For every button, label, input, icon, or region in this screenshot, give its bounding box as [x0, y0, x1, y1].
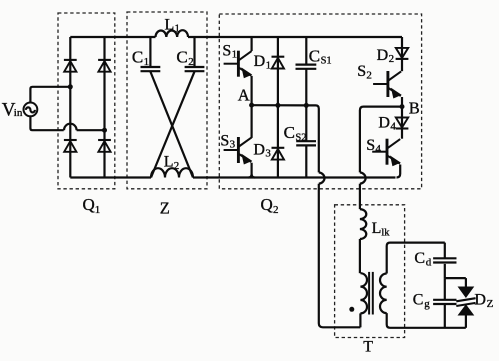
svg-text:D: D [253, 142, 265, 159]
svg-text:B: B [409, 98, 420, 117]
svg-text:S: S [222, 42, 231, 59]
svg-text:C: C [284, 123, 295, 142]
svg-text:g: g [424, 298, 430, 310]
svg-text:C: C [309, 47, 320, 66]
svg-text:2: 2 [188, 56, 194, 68]
svg-text:2: 2 [389, 53, 395, 65]
svg-text:D: D [254, 53, 266, 70]
svg-text:4: 4 [390, 121, 396, 133]
svg-text:S: S [357, 63, 366, 80]
svg-text:Z: Z [487, 298, 494, 310]
svg-text:d: d [426, 256, 432, 268]
svg-text:D: D [378, 114, 390, 131]
svg-text:1: 1 [95, 204, 101, 216]
svg-text:S1: S1 [321, 55, 332, 66]
svg-text:D: D [377, 47, 389, 64]
svg-text:L: L [164, 154, 174, 171]
svg-text:A: A [238, 85, 250, 104]
svg-text:C: C [414, 250, 425, 267]
svg-text:L: L [165, 16, 175, 33]
svg-text:S: S [366, 137, 375, 154]
svg-text:2: 2 [273, 204, 279, 216]
svg-text:T: T [363, 338, 373, 355]
svg-text:C: C [132, 48, 143, 67]
svg-text:1: 1 [144, 56, 150, 68]
svg-text:C: C [413, 292, 424, 309]
svg-text:1: 1 [175, 23, 181, 35]
svg-text:D: D [474, 292, 486, 309]
svg-text:1: 1 [266, 59, 272, 71]
svg-text:4: 4 [375, 143, 381, 155]
svg-text:S: S [220, 132, 229, 149]
svg-text:L: L [372, 220, 382, 237]
svg-text:Q: Q [83, 195, 95, 214]
svg-text:1: 1 [232, 49, 238, 61]
svg-text:3: 3 [265, 148, 271, 160]
svg-text:S2: S2 [295, 133, 306, 144]
svg-text:Q: Q [261, 195, 273, 214]
svg-text:lk: lk [381, 227, 390, 238]
svg-text:in: in [14, 107, 23, 119]
svg-text:2: 2 [366, 69, 372, 81]
svg-text:Z: Z [160, 199, 170, 218]
svg-text:3: 3 [230, 139, 236, 151]
svg-text:C: C [176, 48, 187, 67]
svg-text:2: 2 [174, 160, 180, 172]
